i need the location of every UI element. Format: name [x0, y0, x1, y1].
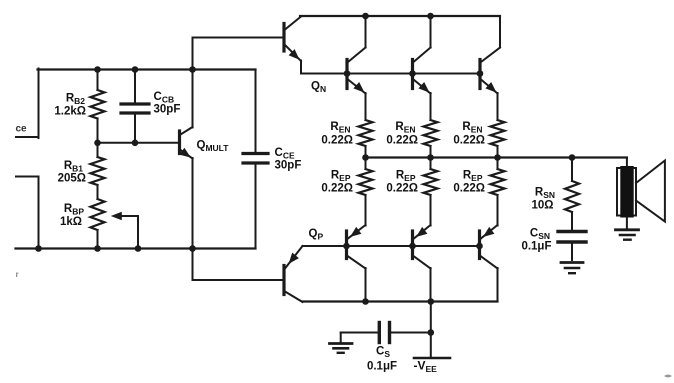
svg-text:QN: QN	[311, 81, 326, 95]
capacitor CCB	[121, 70, 149, 143]
value 30pF (CCE)	[275, 160, 302, 172]
transistor QN1 collector	[348, 16, 366, 62]
svg-text:REP: REP	[463, 170, 483, 184]
value 0.22ohm REN2	[386, 135, 418, 147]
wire QN base wire	[193, 37, 284, 39]
wire input stub A (Vce drive)	[16, 69, 39, 139]
wire NPN base rail	[301, 73, 480, 75]
power -VEE bar	[414, 357, 450, 360]
transistor QP1 base bar	[345, 231, 348, 259]
label QP	[309, 228, 324, 242]
node CCB bottom	[132, 140, 139, 147]
resistor RSN	[565, 158, 579, 231]
svg-text:CSN: CSN	[530, 228, 550, 242]
transistor QN3 collector	[481, 16, 500, 62]
wire emitter drop 2	[430, 93, 432, 120]
transistor QP3 collector	[481, 256, 498, 302]
node wiper/bottom rail	[135, 245, 142, 252]
wire input stub B	[16, 177, 39, 250]
value 0.22ohm REN1	[321, 135, 353, 147]
svg-text:1.2kΩ: 1.2kΩ	[54, 106, 86, 118]
transistor QN collector	[285, 17, 301, 30]
svg-text:REP: REP	[331, 170, 351, 184]
svg-text:0.22Ω: 0.22Ω	[386, 183, 418, 195]
svg-text:RBP: RBP	[64, 203, 84, 217]
svg-text:0.1μF: 0.1μF	[367, 361, 397, 373]
value 205&#937;	[58, 173, 86, 185]
transistor QN1 base bar	[345, 60, 348, 89]
label CCB	[154, 91, 175, 105]
value 0.1uF (CSN)	[521, 241, 551, 253]
label REP3	[463, 170, 483, 184]
node RBP bottom	[94, 245, 101, 252]
label QMULT	[197, 140, 230, 154]
svg-text:REN: REN	[330, 121, 350, 135]
transistor QN2 base bar	[411, 60, 414, 89]
label REN3	[462, 121, 482, 135]
node emitter drop/bottom rail	[189, 245, 196, 252]
wiper arrow RBP	[111, 212, 138, 249]
wire speaker feed	[0, 0, 1, 1]
capacitor CS	[341, 323, 431, 343]
node collector rail tap 2	[427, 13, 434, 20]
label -VEE	[414, 359, 438, 375]
svg-text:1kΩ: 1kΩ	[60, 216, 82, 228]
resistor RB1	[91, 143, 105, 199]
transistor QMULT collector	[181, 127, 193, 135]
value 30pF (CCB)	[154, 104, 181, 116]
wire VEE drop	[430, 302, 432, 359]
node PNP base tap 2	[409, 243, 416, 250]
svg-text:0.22Ω: 0.22Ω	[386, 135, 418, 147]
wire output rail	[366, 156, 627, 158]
transistor QP collector	[285, 292, 303, 303]
svg-text:-VEE: -VEE	[414, 359, 438, 375]
node output rail tap 2	[427, 154, 434, 161]
value 1k&#937;	[60, 216, 82, 228]
wire PNP base rail	[303, 245, 480, 247]
node output rail tap 1	[362, 154, 369, 161]
resistor REP3	[491, 158, 505, 226]
svg-text:0.22Ω: 0.22Ω	[453, 183, 485, 195]
artifact tiny r mark	[16, 270, 19, 279]
value 0.1uF (CS)	[367, 361, 397, 373]
ground (CSN)	[561, 263, 583, 274]
node NPN base tap 3	[477, 70, 484, 77]
wire Qmult base line	[98, 142, 180, 144]
transistor QN1 emitter	[348, 80, 366, 94]
svg-text:RSN: RSN	[535, 187, 555, 201]
transistor QP2 collector	[414, 256, 431, 302]
svg-text:10Ω: 10Ω	[531, 200, 553, 212]
transistor QN base bar	[282, 24, 285, 52]
resistor RB2	[91, 70, 105, 143]
transistor QP3 base bar	[478, 231, 481, 259]
resistor REP2	[424, 158, 438, 226]
transistor QN3 emitter	[481, 80, 498, 94]
svg-text:0.22Ω: 0.22Ω	[321, 135, 353, 147]
svg-text:0.22Ω: 0.22Ω	[321, 183, 353, 195]
wire emitter drop 1	[365, 93, 367, 120]
wire QP base wire	[193, 279, 284, 281]
transistor QP emitter	[285, 246, 303, 269]
wire top bias rail	[38, 68, 256, 70]
node label ce (cropped)	[16, 124, 28, 135]
node RB2 top	[94, 66, 101, 73]
transistor QP2 emitter	[414, 225, 431, 239]
resistor REP1	[359, 158, 373, 226]
label RB1	[64, 160, 83, 174]
svg-text:CS: CS	[376, 346, 390, 360]
wire bottom collector rail	[303, 300, 498, 302]
svg-text:REN: REN	[462, 121, 482, 135]
capacitor CSN	[558, 232, 586, 261]
value 10ohm	[531, 200, 553, 212]
node bottom rail tap 2	[428, 298, 435, 305]
node NPN base tap 2	[409, 70, 416, 77]
transistor QP base bar	[282, 266, 285, 295]
label QN	[311, 81, 326, 95]
label CSN	[530, 228, 550, 242]
transistor QMULT base bar	[178, 131, 181, 154]
node bottom rail tap 1	[362, 298, 369, 305]
value 0.22ohm REP2	[386, 183, 418, 195]
node collector rail tap 1	[362, 13, 369, 20]
potentiometer RBP	[91, 199, 105, 249]
label REP1	[331, 170, 351, 184]
label RBP	[64, 203, 84, 217]
svg-text:0.1μF: 0.1μF	[521, 241, 551, 253]
svg-text:0.22Ω: 0.22Ω	[453, 135, 485, 147]
transistor QP3 emitter	[481, 225, 498, 239]
svg-text:QMULT: QMULT	[197, 140, 230, 154]
transistor QN emitter	[285, 45, 301, 61]
wire QN emitter drop	[300, 61, 302, 74]
resistor REN1	[359, 120, 373, 158]
ground (speaker)	[616, 218, 639, 240]
label RSN	[535, 187, 555, 201]
node RB2 bottom	[94, 140, 101, 147]
value 0.22ohm REP1	[321, 183, 353, 195]
label REP2	[396, 170, 416, 184]
svg-text:QP: QP	[309, 228, 324, 242]
wire speaker drop	[626, 158, 628, 169]
label CS	[376, 346, 390, 360]
transistor QMULT emitter	[179, 148, 192, 159]
ground (CS)	[330, 333, 353, 353]
capacitor CCE	[243, 70, 268, 249]
label REN1	[330, 121, 350, 135]
wire bottom bias rail	[16, 247, 256, 249]
svg-text:r: r	[16, 270, 19, 279]
node output rail tap 3	[494, 154, 501, 161]
node CCB top	[132, 66, 139, 73]
node riser/top bias rail	[189, 66, 196, 73]
wire emitter drop 3	[497, 93, 499, 120]
node junction stubB/bottom rail	[35, 245, 42, 252]
node CS tap	[428, 329, 435, 336]
speaker cone	[636, 161, 665, 222]
node PNP base tap 3	[476, 243, 483, 250]
svg-text:REN: REN	[395, 121, 415, 135]
node snubber tap	[569, 154, 576, 161]
node PNP base tap 1	[343, 243, 350, 250]
svg-text:205Ω: 205Ω	[58, 173, 86, 185]
resistor REN3	[491, 120, 505, 158]
artifact corner smudge	[664, 375, 672, 378]
wire QMULT emitter drop	[192, 158, 194, 280]
transistor QP1 collector	[348, 256, 366, 302]
speaker driver	[617, 166, 636, 218]
label REN2	[395, 121, 415, 135]
transistor QN2 collector	[414, 16, 431, 62]
svg-text:ce: ce	[16, 124, 28, 135]
label CCE	[275, 147, 295, 161]
value 0.22ohm REP3	[453, 183, 485, 195]
svg-text:REP: REP	[396, 170, 416, 184]
transistor QP1 emitter	[348, 225, 366, 239]
label RB2	[66, 93, 85, 107]
svg-text:RB2: RB2	[66, 93, 85, 107]
wire top collector rail	[300, 15, 500, 17]
value 0.22ohm REN3	[453, 135, 485, 147]
value 1.2k&#937;	[54, 106, 86, 118]
svg-text:30pF: 30pF	[275, 160, 302, 172]
resistor REN2	[424, 120, 438, 158]
wire QMULT collector riser	[192, 38, 194, 128]
svg-text:30pF: 30pF	[154, 104, 181, 116]
node NPN base tap 1	[344, 70, 351, 77]
transistor QN3 base bar	[478, 60, 481, 89]
transistor QP2 base bar	[411, 231, 414, 259]
transistor QN2 emitter	[414, 80, 431, 94]
